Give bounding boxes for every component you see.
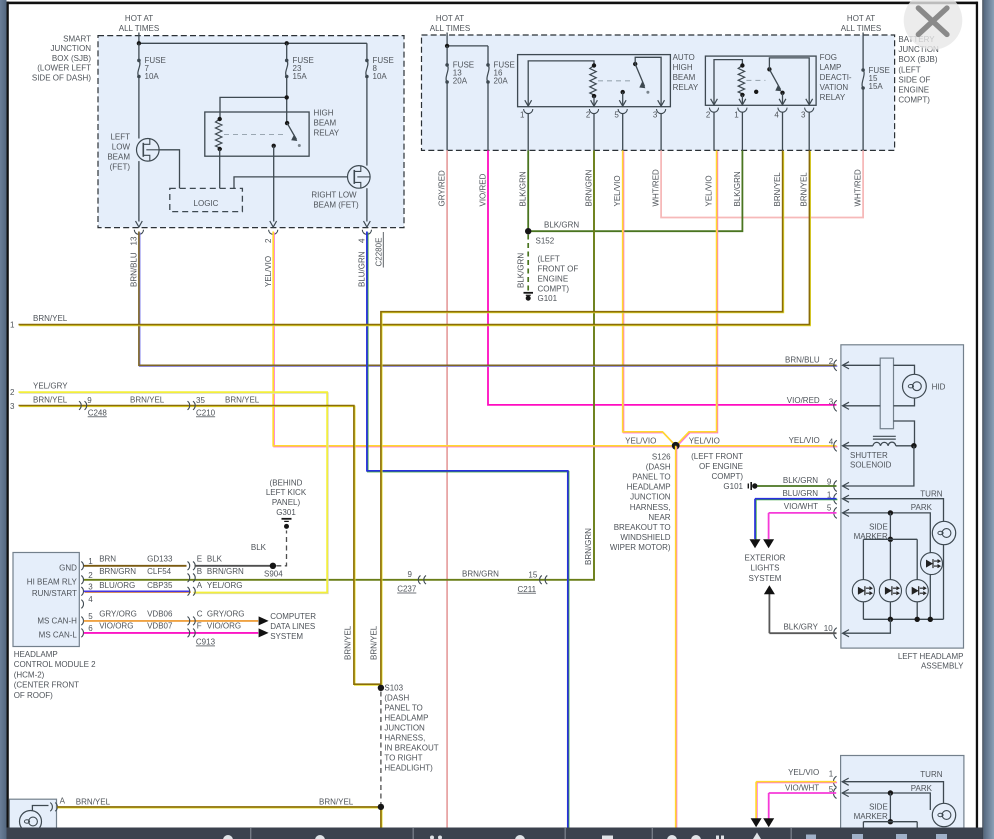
svg-text:13: 13 [130, 236, 139, 245]
svg-text:BRN/YEL: BRN/YEL [33, 314, 68, 323]
svg-text:BLK: BLK [207, 555, 223, 564]
svg-text:FOG: FOG [820, 53, 837, 62]
svg-text:HEADLIGHT): HEADLIGHT) [384, 764, 433, 773]
right window border [976, 2, 978, 828]
fog relay arm to pin 4 [780, 91, 784, 95]
svg-text:15A: 15A [293, 72, 308, 81]
svg-text:2: 2 [586, 111, 591, 120]
fog relay pin 1 wire [741, 95, 743, 105]
connector C211 on BRN/GRN [540, 576, 542, 585]
svg-text:1: 1 [829, 769, 834, 778]
svg-text:S152: S152 [536, 237, 555, 246]
bottom bus [863, 618, 943, 620]
svg-text:TURN: TURN [920, 489, 942, 498]
svg-text:OF ENGINE: OF ENGINE [699, 462, 743, 471]
svg-text:WINDSHIELD: WINDSHIELD [620, 533, 670, 542]
svg-text:(LEFT FRONT: (LEFT FRONT [691, 452, 743, 461]
svg-text:BRN/YEL: BRN/YEL [76, 797, 111, 806]
top window border [7, 2, 978, 5]
left low beam FET Q1 [137, 139, 160, 162]
battery junction box BJB (dashed box) [422, 35, 895, 150]
svg-text:SIDE OF: SIDE OF [898, 75, 930, 84]
side marker branch (right hl) [888, 790, 893, 795]
auto high beam relay box [518, 55, 671, 107]
svg-text:ENGINE: ENGINE [538, 275, 569, 284]
svg-text:2: 2 [829, 357, 834, 366]
relay coil feed wire [220, 97, 287, 119]
relay output wire to pin 2 [272, 144, 276, 148]
svg-text:(HCM-2): (HCM-2) [14, 670, 45, 679]
svg-text:ALL TIMES: ALL TIMES [841, 24, 881, 33]
auto relay pin connectors 1 2 5 3 [525, 100, 532, 106]
svg-text:(DASH: (DASH [646, 462, 671, 471]
svg-text:BLU/ORG: BLU/ORG [99, 581, 135, 590]
wire BRN/BLU SJB pin13 to left headlamp pin 2 [140, 232, 838, 366]
svg-text:BRN/GRN: BRN/GRN [99, 567, 136, 576]
wire BRN/YEL bottom row [58, 808, 382, 829]
svg-text:LOW: LOW [112, 143, 131, 152]
fog relay coil feed from pin 2 [714, 60, 742, 106]
HID bulb [903, 374, 927, 398]
ground G101 (left front of engine compt) [524, 292, 534, 294]
svg-text:YEL/ORG: YEL/ORG [207, 581, 243, 590]
smart junction box SJB (dashed box) [98, 36, 404, 228]
svg-text:A: A [197, 581, 203, 590]
svg-text:20A: 20A [494, 77, 509, 86]
svg-text:VIO/RED: VIO/RED [787, 396, 820, 405]
svg-text:HOT AT: HOT AT [436, 14, 464, 23]
connector C210 [188, 401, 190, 410]
svg-text:YEL/GRY: YEL/GRY [33, 381, 68, 390]
svg-text:G101: G101 [538, 294, 558, 303]
wire BLK/GRY to exterior lights system [769, 632, 836, 634]
svg-text:BLU/GRN: BLU/GRN [782, 489, 818, 498]
auto relay coil feed from pin 1 [528, 61, 594, 107]
SJB top bus wire [139, 42, 367, 44]
svg-text:C210: C210 [196, 408, 216, 417]
ballast to shutter solenoid junction [894, 421, 915, 446]
relay coil [216, 119, 222, 149]
svg-text:C211: C211 [518, 585, 537, 594]
svg-text:WHT/RED: WHT/RED [652, 169, 661, 207]
svg-text:BOX (SJB): BOX (SJB) [52, 54, 91, 63]
node S152 [525, 228, 531, 234]
svg-text:F: F [197, 621, 202, 630]
svg-text:S126: S126 [652, 452, 671, 461]
svg-text:E: E [197, 555, 202, 564]
wire VIO/WHT stub to exterior lights [769, 512, 837, 514]
svg-text:VIO/ORG: VIO/ORG [99, 621, 133, 630]
svg-text:BRN/BLU: BRN/BLU [785, 355, 820, 364]
svg-text:(CENTER FRONT: (CENTER FRONT [14, 681, 79, 690]
svg-text:RIGHT LOW: RIGHT LOW [311, 191, 357, 200]
svg-text:VIO/WHT: VIO/WHT [785, 783, 819, 792]
svg-text:HOT AT: HOT AT [125, 14, 153, 23]
fog relay pivot feed to pin 3 [769, 58, 809, 105]
side marker bus and LED drops [863, 538, 917, 540]
wire YEL/VIO fog relay pin2 to S126 [677, 151, 718, 446]
auto relay pin5 contact [621, 90, 625, 94]
svg-text:BRN: BRN [99, 555, 116, 564]
svg-text:BLK: BLK [251, 543, 267, 552]
LED lamp 4 (high) [921, 553, 943, 575]
svg-text:LOGIC: LOGIC [194, 199, 219, 208]
dashed BLK wire S103 to bottom junction [380, 692, 382, 805]
svg-text:BREAKOUT TO: BREAKOUT TO [614, 523, 671, 532]
svg-text:PANEL TO: PANEL TO [384, 704, 422, 713]
svg-text:BLU/GRN: BLU/GRN [358, 251, 367, 287]
right scrollbar strip [982, 0, 983, 839]
pin 10 BLK/GRY return [843, 619, 891, 633]
wire YEL/VIO stub (right hl) [757, 782, 837, 784]
fuse 23 15A [286, 43, 288, 60]
svg-text:5: 5 [827, 503, 832, 512]
svg-text:SIDE: SIDE [869, 522, 888, 531]
wire BRN/YEL row 3 to S103 (through C248 C210) [19, 406, 381, 685]
svg-text:S103: S103 [384, 684, 403, 693]
svg-text:YEL/VIO: YEL/VIO [789, 436, 820, 445]
svg-text:VIO/ORG: VIO/ORG [207, 621, 241, 630]
bottom left box pin A connector [50, 803, 52, 812]
svg-text:BEAM: BEAM [314, 119, 337, 128]
wire BRN row1 HCM-2 [84, 565, 187, 567]
svg-text:HARNESS,: HARNESS, [384, 734, 425, 743]
svg-text:BRN/GRN: BRN/GRN [207, 567, 244, 576]
svg-text:(DASH: (DASH [384, 694, 409, 703]
fuse 15 15A [861, 68, 865, 72]
svg-text:BLK/GRN: BLK/GRN [544, 221, 579, 230]
wire coil to logic [219, 149, 221, 188]
svg-text:SHUTTER: SHUTTER [850, 451, 888, 460]
auto relay pin 2 wire [593, 96, 595, 107]
wire YEL/GRY row 2 to HCM-2 pin A [19, 393, 328, 593]
svg-text:(FET): (FET) [110, 163, 131, 172]
svg-text:BRN/YEL: BRN/YEL [130, 395, 165, 404]
logic box (dashed) [170, 188, 243, 211]
wire VIO/ORG row6 [84, 632, 258, 634]
connector C913 row E [188, 562, 190, 571]
svg-text:JUNCTION: JUNCTION [630, 493, 671, 502]
left window strip [0, 0, 7, 839]
headlamp control module 2 HCM-2 box [13, 553, 79, 647]
svg-text:2: 2 [88, 571, 93, 580]
fuse 13 20A [445, 63, 449, 67]
wire YEL/VIO SJB pin2 through S126 to left headlamp pin 4 [274, 232, 837, 446]
wire VIO/RED fuse16 to left headlamp pin 3 [488, 150, 837, 405]
node S103 [378, 685, 384, 691]
svg-text:VDB07: VDB07 [147, 621, 173, 630]
svg-text:DEACTI-: DEACTI- [820, 73, 852, 82]
svg-text:15: 15 [528, 571, 537, 580]
svg-text:WHT/RED: WHT/RED [854, 169, 863, 207]
svg-text:6: 6 [88, 624, 93, 633]
svg-text:HEADLAMP: HEADLAMP [627, 483, 671, 492]
svg-text:BRN/YEL: BRN/YEL [343, 625, 352, 660]
wire VIO/WHT stub (right hl) [769, 792, 837, 794]
HID bulb bottom to ballast [894, 398, 915, 406]
svg-text:BRN/GRN: BRN/GRN [585, 169, 594, 206]
toolbar icon hints [223, 835, 233, 839]
ground G101 near S126 [752, 483, 757, 488]
wire BLK/GRN auto relay pin1 to S152 [527, 150, 529, 231]
svg-text:YEL/VIO: YEL/VIO [625, 436, 656, 445]
svg-text:(LEFT: (LEFT [898, 65, 920, 74]
svg-text:C2280E: C2280E [375, 238, 384, 267]
svg-text:YEL/VIO: YEL/VIO [689, 436, 720, 445]
svg-text:10A: 10A [373, 72, 388, 81]
svg-text:EXTERIOR: EXTERIOR [745, 553, 786, 562]
svg-text:4: 4 [88, 595, 93, 604]
shutter solenoid coil [873, 442, 896, 446]
svg-text:10: 10 [824, 624, 833, 633]
svg-text:MS CAN-L: MS CAN-L [39, 631, 78, 640]
svg-text:COMPT): COMPT) [711, 472, 743, 481]
svg-text:BRN/BLU: BRN/BLU [130, 252, 139, 287]
svg-text:VDB06: VDB06 [147, 609, 173, 618]
svg-text:BLK/GRN: BLK/GRN [517, 253, 526, 288]
svg-text:4: 4 [774, 111, 779, 120]
HCM-2 pin arcs and numbers [81, 562, 83, 571]
SJB pin 2 connector [270, 221, 277, 227]
node S126 [672, 442, 680, 450]
bottom left lamp bulb [20, 811, 42, 833]
svg-text:3: 3 [88, 583, 93, 592]
fuse 16 20A [487, 46, 489, 65]
svg-text:SIDE: SIDE [869, 803, 888, 812]
svg-text:AUTO: AUTO [673, 53, 695, 62]
svg-text:PARK: PARK [911, 784, 933, 793]
svg-text:BLK/GRN: BLK/GRN [519, 171, 528, 206]
svg-text:HIGH: HIGH [314, 109, 334, 118]
connector C248 [79, 401, 81, 410]
svg-text:VIO/WHT: VIO/WHT [784, 502, 818, 511]
svg-text:TO RIGHT: TO RIGHT [384, 754, 422, 763]
svg-text:YEL/VIO: YEL/VIO [788, 768, 819, 777]
HID ballast rect [880, 358, 893, 429]
auto relay switch [633, 62, 637, 66]
wire WHT/RED auto relay pin3 - fuse15 [661, 150, 863, 217]
svg-text:PARK: PARK [911, 503, 933, 512]
svg-text:VATION: VATION [820, 83, 849, 92]
PARK wire inside headlamp [843, 513, 931, 553]
svg-text:A: A [60, 797, 66, 806]
svg-text:4: 4 [829, 438, 834, 447]
wire YEL/VIO S126 down to bottom edge [676, 447, 678, 829]
wire FET gate to logic [159, 150, 179, 189]
SJB pin 4 connector C2280E [364, 221, 371, 227]
node S904 [270, 563, 276, 569]
right headlamp assembly box (partial) [841, 756, 964, 839]
svg-text:3: 3 [801, 111, 806, 120]
svg-text:RELAY: RELAY [314, 129, 340, 138]
auto relay dashed link [598, 80, 631, 82]
svg-text:20A: 20A [453, 77, 468, 86]
fog relay dashed link [746, 79, 765, 81]
svg-text:C237: C237 [397, 585, 417, 594]
svg-text:BLK/GRN: BLK/GRN [783, 476, 818, 485]
svg-text:5: 5 [614, 111, 619, 120]
svg-text:1: 1 [10, 321, 15, 330]
svg-text:9: 9 [408, 570, 413, 579]
svg-text:1: 1 [734, 111, 739, 120]
svg-text:BRN/YEL: BRN/YEL [225, 395, 260, 404]
svg-text:NEAR: NEAR [648, 513, 670, 522]
svg-text:OF ROOF): OF ROOF) [14, 691, 53, 700]
wire GRY/ORG row5 [84, 620, 258, 622]
svg-text:SIDE OF DASH): SIDE OF DASH) [32, 74, 91, 83]
svg-text:CLF54: CLF54 [147, 567, 172, 576]
svg-text:C248: C248 [88, 408, 108, 417]
svg-text:BRN/YEL: BRN/YEL [33, 395, 68, 404]
svg-text:YEL/VIO: YEL/VIO [613, 175, 622, 206]
svg-text:HIGH: HIGH [673, 63, 693, 72]
wire BLK/GRN G101 to pin 9 [758, 485, 837, 487]
svg-text:LAMP: LAMP [820, 63, 842, 72]
SJB pin 13 connector [136, 221, 143, 227]
svg-text:YEL/VIO: YEL/VIO [705, 175, 714, 206]
svg-text:JUNCTION: JUNCTION [51, 44, 92, 53]
svg-text:COMPT): COMPT) [538, 285, 570, 294]
connector C237 on BRN/GRN [418, 576, 420, 585]
toolbar [5, 828, 983, 839]
svg-text:10A: 10A [145, 72, 160, 81]
svg-text:FRONT OF: FRONT OF [538, 265, 579, 274]
svg-text:GND: GND [59, 563, 77, 572]
svg-text:HEADLAMP: HEADLAMP [384, 714, 428, 723]
svg-text:WIPER MOTOR): WIPER MOTOR) [610, 543, 671, 552]
svg-text:2: 2 [10, 388, 15, 397]
svg-text:B: B [197, 567, 202, 576]
svg-text:HOT AT: HOT AT [847, 14, 875, 23]
svg-text:GD133: GD133 [147, 555, 173, 564]
svg-text:BRN/GRN: BRN/GRN [462, 569, 499, 578]
svg-text:CBP35: CBP35 [147, 581, 173, 590]
LED lamps 1-3 [852, 580, 874, 602]
BJB top bus [447, 45, 488, 47]
svg-text:GRY/ORG: GRY/ORG [207, 609, 245, 618]
svg-text:(LOWER LEFT: (LOWER LEFT [37, 64, 91, 73]
svg-text:HEADLAMP: HEADLAMP [14, 650, 58, 659]
wire BLK to S904 [195, 565, 273, 567]
fog relay pin connectors 2 1 4 3 [711, 99, 718, 105]
svg-text:3: 3 [653, 111, 658, 120]
wire BRN/YEL fog relay pin3 to row 1 left edge [19, 151, 810, 325]
svg-text:CONTROL MODULE 2: CONTROL MODULE 2 [14, 660, 96, 669]
svg-text:SYSTEM: SYSTEM [749, 574, 782, 583]
svg-text:SMART: SMART [63, 34, 91, 43]
auto relay pivot feed to pin 3 [635, 57, 661, 106]
svg-text:15A: 15A [869, 82, 884, 91]
svg-text:RELAY: RELAY [673, 83, 699, 92]
svg-text:BLK/GRY: BLK/GRY [783, 622, 818, 631]
svg-text:IN BREAKOUT: IN BREAKOUT [384, 744, 438, 753]
svg-text:BRN/YEL: BRN/YEL [369, 625, 378, 660]
svg-text:BLK/GRN: BLK/GRN [733, 171, 742, 206]
svg-text:HID: HID [932, 382, 946, 391]
bottom left lamp box (partial) [9, 799, 56, 839]
svg-text:GRY/RED: GRY/RED [438, 170, 447, 207]
turn/park bulb [943, 521, 945, 545]
svg-text:ALL TIMES: ALL TIMES [430, 24, 470, 33]
svg-text:ASSEMBLY: ASSEMBLY [921, 662, 964, 671]
svg-text:YEL/VIO: YEL/VIO [264, 256, 273, 287]
ground G301 (behind left kick panel) [282, 518, 292, 520]
svg-text:JUNCTION: JUNCTION [384, 724, 425, 733]
right low beam FET Q2 [348, 166, 371, 189]
fog lamp deactivation relay box [705, 56, 816, 105]
svg-text:VIO/RED: VIO/RED [479, 173, 488, 206]
svg-text:35: 35 [196, 396, 205, 405]
svg-text:ENGINE: ENGINE [898, 86, 929, 95]
svg-text:PANEL TO: PANEL TO [632, 473, 670, 482]
svg-text:3: 3 [829, 397, 834, 406]
wire right FET gate to logic [234, 177, 348, 189]
svg-text:BEAM: BEAM [673, 73, 696, 82]
svg-text:BRN/GRN: BRN/GRN [584, 528, 593, 565]
svg-text:G301: G301 [276, 508, 296, 517]
wire BLU/GRN stub to exterior lights [756, 499, 838, 501]
svg-text:LEFT HEADLAMP: LEFT HEADLAMP [898, 652, 964, 661]
svg-text:RUN/START: RUN/START [32, 589, 77, 598]
svg-text:BRN/YEL: BRN/YEL [773, 172, 782, 207]
svg-text:LEFT: LEFT [110, 133, 130, 142]
svg-text:SOLENOID: SOLENOID [850, 461, 892, 470]
svg-text:BRN/YEL: BRN/YEL [800, 172, 809, 207]
wire fuse7 to pin 13 [138, 161, 140, 221]
wire fuse8 FET to pin 4 [366, 188, 368, 221]
svg-text:MS CAN-H: MS CAN-H [37, 616, 77, 625]
svg-text:PANEL): PANEL) [272, 498, 301, 507]
fog relay switch [767, 67, 771, 71]
svg-text:HI BEAM RLY: HI BEAM RLY [27, 578, 78, 587]
svg-text:2: 2 [264, 238, 273, 243]
wire hot feed into SJB [138, 33, 140, 44]
TURN wire inside headlamp [843, 499, 944, 620]
svg-text:C: C [197, 609, 203, 618]
high beam relay box [205, 112, 309, 156]
fuse 7 10A [138, 43, 140, 60]
dashed BLK/GRN S152 to ground G101 [527, 235, 529, 292]
wire BRN/GRN auto relay pin2 down-left to HCM-2 (through C211 C237) [84, 150, 594, 579]
svg-text:TURN: TURN [920, 770, 942, 779]
svg-text:(BEHIND: (BEHIND [270, 478, 303, 487]
svg-text:1: 1 [88, 557, 93, 566]
turn/park bulb (right hl) [932, 803, 955, 826]
svg-text:COMPT): COMPT) [898, 96, 930, 105]
svg-text:5: 5 [88, 612, 93, 621]
svg-text:G101: G101 [723, 482, 743, 491]
svg-text:BRN/YEL: BRN/YEL [319, 797, 354, 806]
side marker branch [889, 513, 891, 539]
svg-text:(LEFT: (LEFT [538, 255, 560, 264]
relay switch [285, 121, 289, 125]
left headlamp assembly box [841, 345, 964, 648]
wire YEL/VIO auto relay pin5 to S126 [624, 151, 677, 446]
wire GRY/RED fuse13 down to bottom [446, 150, 448, 827]
svg-text:COMPUTER: COMPUTER [270, 612, 316, 621]
svg-text:4: 4 [358, 238, 367, 243]
close button [904, 0, 963, 50]
svg-text:DATA LINES: DATA LINES [270, 622, 315, 631]
solenoid return to pin 9 [843, 446, 914, 486]
auto relay coil [590, 66, 596, 97]
svg-text:MARKER: MARKER [854, 812, 888, 821]
svg-text:9: 9 [87, 396, 92, 405]
svg-text:HARNESS,: HARNESS, [630, 503, 671, 512]
wire ballast to HID bulb [894, 365, 915, 374]
svg-text:BEAM (FET): BEAM (FET) [313, 201, 359, 210]
svg-text:1: 1 [520, 111, 525, 120]
